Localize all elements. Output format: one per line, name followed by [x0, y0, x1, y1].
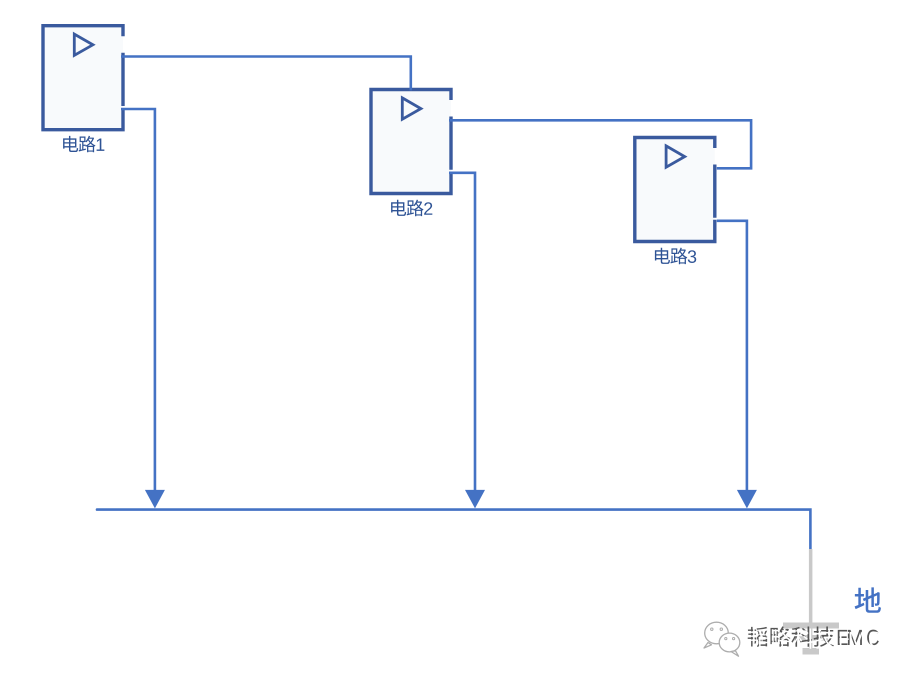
watermark: WeChat icon — [704, 622, 740, 656]
wire: 电路3 ground lead down to bus arrow — [717, 221, 757, 509]
ground bus (horizontal) with drop toward ground symbol — [97, 510, 810, 550]
wire: 电路2 output to 电路3 right side — [449, 120, 751, 168]
play triangle icon inside 电路2 — [402, 98, 421, 119]
wire: 电路2 ground lead down to bus arrow — [449, 173, 485, 509]
circuit block 电路2 — [369, 90, 452, 194]
net label 地 (ground) — [855, 587, 881, 612]
earth ground symbol (gray) — [783, 549, 839, 655]
circuit block 电路1 — [41, 26, 124, 130]
label 电路3 — [655, 248, 696, 265]
play triangle icon inside 电路1 — [74, 34, 93, 55]
label 电路2 — [391, 200, 432, 217]
wire: 电路1 output to 电路2 top — [121, 57, 411, 91]
label 电路1 — [63, 136, 104, 153]
watermark text 韬略科技EMC (gray shadow up-left, white on top) — [748, 626, 879, 646]
play triangle icon inside 电路3 — [666, 146, 685, 167]
wire: 电路1 ground lead down to bus arrow — [121, 109, 165, 508]
circuit block 电路3 — [633, 138, 716, 242]
